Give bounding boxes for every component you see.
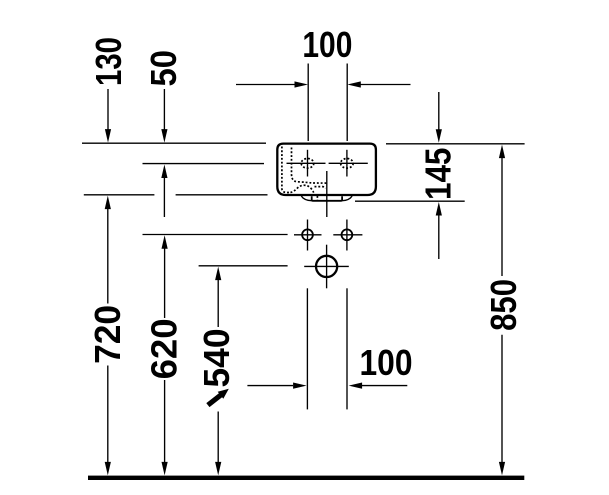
drain circle (304, 245, 349, 289)
dimension 100 bottom left arrow (247, 383, 306, 389)
svg-text:540: 540 (196, 329, 237, 388)
dimension 620 up arrow (162, 235, 168, 318)
dimension 50 up arrow (161, 165, 167, 218)
svg-text:100: 100 (360, 342, 413, 383)
washbasin outline (277, 144, 376, 195)
svg-text:145: 145 (417, 148, 458, 201)
svg-text:100: 100 (302, 24, 352, 65)
fixing hole right (333, 220, 362, 251)
tap hole right (329, 150, 368, 177)
dimension 620 down arrow to floor (162, 380, 168, 475)
dimension 100 top left extension line (307, 64, 309, 142)
rim level extension line right (386, 143, 525, 145)
dimension 145 down arrow (436, 92, 442, 143)
dimension 50 down arrow (161, 89, 167, 143)
dimension 100 bottom right extension line (346, 288, 348, 409)
dimension 145 up arrow (436, 202, 442, 259)
drain centerline (326, 171, 328, 217)
dimension 540 down arrow to floor (215, 412, 221, 476)
fixing hole level extension line (143, 234, 288, 236)
direction arrow marker (206, 389, 229, 407)
svg-text:620: 620 (144, 318, 185, 379)
hidden drain descender (316, 196, 318, 200)
svg-text:50: 50 (143, 50, 184, 87)
dimension 100 top left arrow (236, 81, 308, 87)
dimension 540 up arrow (215, 267, 221, 327)
dimension 100 bottom right arrow (349, 383, 408, 389)
dimension 850 up arrow (499, 145, 505, 276)
rim level extension line left (82, 142, 266, 144)
basin bottom extension line left segment (84, 194, 155, 196)
dimension 130 down arrow (105, 89, 111, 143)
drain cover body (312, 196, 342, 201)
dimension 100 top right arrow (347, 81, 410, 87)
hidden channel lower edge (315, 187, 326, 189)
hidden basin contour inner (292, 148, 328, 184)
hidden basin contour outer (282, 147, 291, 193)
fixing hole left (294, 220, 322, 251)
drain level extension line (199, 265, 288, 267)
svg-text:850: 850 (483, 279, 524, 331)
hidden overflow channel hump (291, 185, 315, 194)
dimension 720 up arrow (105, 196, 111, 304)
floor line (88, 476, 524, 480)
tap hole left (287, 150, 326, 177)
svg-text:130: 130 (88, 37, 129, 86)
drain cover left wing (301, 196, 311, 201)
drain cover right wing (342, 196, 352, 201)
tap hole level extension line (143, 163, 265, 165)
basin bottom extension line right segment (176, 194, 268, 196)
dimension 100 bottom left extension line (306, 288, 308, 409)
dimension 100 top right extension line (346, 64, 348, 142)
drain cover bottom extension line (355, 200, 465, 202)
svg-text:720: 720 (87, 305, 128, 364)
dimension 720 down arrow to floor (105, 366, 111, 476)
dimension 850 down arrow to floor (499, 335, 505, 476)
